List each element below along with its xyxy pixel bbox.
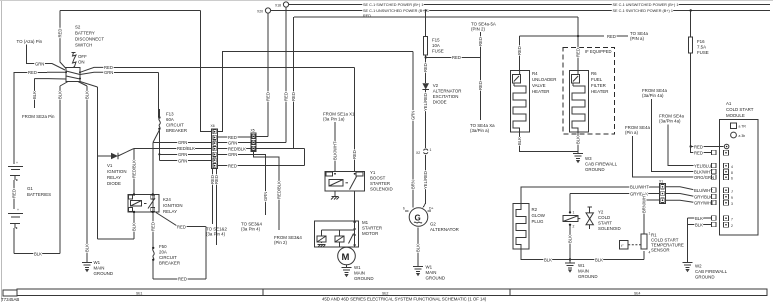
svg-text:FROM SE2a Pin: FROM SE2a Pin (22, 114, 55, 119)
svg-text:RED: RED (352, 150, 357, 159)
svg-text:CIRCUIT: CIRCUIT (166, 123, 184, 128)
svg-text:RED: RED (607, 34, 616, 39)
svg-text:IGNITION: IGNITION (163, 203, 183, 208)
svg-text:RED: RED (694, 150, 703, 155)
svg-text:60A: 60A (166, 117, 174, 122)
svg-text:(3a Pin 4): (3a Pin 4) (206, 232, 226, 237)
wire: switch bottom to main ground (78, 82, 90, 263)
label: F16 7.5A FUSE (697, 39, 709, 55)
wire: X1 pin3 to A1 GRY/WHT (666, 200, 715, 205)
label: R1 COLD START TEMPERATURE SENSOR (651, 233, 684, 253)
label: V2 ALTERNATOR EXCITATION DIODE (433, 83, 462, 105)
svg-text:A1: A1 (726, 101, 732, 106)
heater R4 unloader valve heater (510, 70, 529, 131)
svg-text:RED/BLK: RED/BLK (132, 160, 137, 178)
svg-text:RED: RED (177, 224, 186, 229)
svg-text:FUSE: FUSE (432, 49, 444, 54)
svg-text:BLK: BLK (544, 257, 552, 262)
wire: GRN feeder from X6 top right corner (218, 52, 414, 132)
svg-text:DISCONNECT: DISCONNECT (75, 37, 104, 42)
svg-text:GLOW: GLOW (532, 213, 546, 218)
label: F50 20A CIRCUIT BREAKER (159, 244, 180, 266)
svg-text:UNLOADER: UNLOADER (532, 77, 556, 82)
svg-text:S2: S2 (75, 25, 81, 30)
svg-text:BLK: BLK (416, 244, 421, 252)
ground W1 main ground (right) (565, 258, 598, 279)
battery G1 upper (8, 161, 23, 209)
svg-text:BLK: BLK (517, 137, 522, 145)
svg-text:W2: W2 (695, 264, 702, 269)
svg-text:IGNITION: IGNITION (107, 169, 127, 174)
wire: X18 drop to X5 (284, 7, 289, 142)
svg-text:F15: F15 (432, 38, 440, 43)
wire: X6 to X5 RED/BLK (218, 146, 252, 151)
svg-text:Y2: Y2 (598, 210, 604, 215)
bus label right: switched power (613, 3, 679, 7)
svg-text:GROUND: GROUND (578, 274, 598, 279)
svg-text:10A: 10A (432, 43, 440, 48)
svg-text:(3a Pin 1a): (3a Pin 1a) (323, 117, 345, 122)
wire: GRN bus 2 to X6 (158, 152, 211, 157)
solenoid coil Y2 (563, 194, 578, 260)
svg-text:(PIN a): (PIN a) (630, 36, 644, 41)
svg-text:GRN: GRN (178, 152, 187, 157)
svg-text:W1: W1 (94, 260, 101, 265)
svg-text:FILTER: FILTER (591, 83, 606, 88)
wire: BLK/WHT drop to Y1 coil (333, 122, 338, 172)
bus label left: RED (363, 14, 371, 18)
wire: switched power bus (top line) (289, 4, 770, 6)
svg-text:SE1: SE1 (136, 291, 143, 295)
svg-text:W3: W3 (585, 156, 592, 161)
svg-text:GRN: GRN (35, 61, 44, 66)
svg-text:M: M (342, 252, 350, 263)
svg-text:2: 2 (731, 224, 733, 228)
circuit breaker F50 (152, 247, 206, 282)
svg-text:MAIN: MAIN (354, 271, 365, 276)
label: S2 BATTERY DISCONNECT SWITCH (75, 25, 104, 48)
section strip SE1 SE2 SE4 (17, 289, 767, 296)
label: TO SE4a-5A (PIN 2) (471, 22, 496, 32)
svg-text:V2: V2 (433, 83, 439, 88)
svg-text:RED: RED (363, 14, 371, 18)
svg-text:DIODE: DIODE (433, 100, 447, 105)
label: G2 ALTERNATOR (430, 222, 459, 233)
svg-text:RED/BLK: RED/BLK (177, 146, 195, 151)
svg-text:HEATER: HEATER (532, 89, 549, 94)
svg-text:VALVE: VALVE (532, 83, 546, 88)
bus label left: unswitched power (363, 9, 429, 13)
svg-text:X18: X18 (275, 4, 281, 8)
label: TO SE4a (PIN a) (630, 31, 649, 41)
wire: RED from battery plus into switch (14, 70, 65, 164)
svg-text:FUEL: FUEL (591, 77, 603, 82)
svg-text:ON: ON (78, 60, 85, 65)
heater R6 fuel filter heater (570, 70, 589, 131)
wire: F16 to A1 RED pin 1 (691, 144, 724, 149)
svg-text:K24: K24 (163, 197, 171, 202)
label: FROM SE1a X1 (3a Pin 1a) (323, 112, 355, 122)
label: K24 IGNITION RELAY (163, 197, 183, 214)
svg-text:3: 3 (731, 202, 733, 206)
wire: A1 BLK pins to W2 ground (688, 216, 712, 262)
svg-text:GRY/BLK: GRY/BLK (694, 194, 712, 199)
svg-text:RED: RED (58, 29, 63, 38)
svg-text:BLU/WHT: BLU/WHT (630, 185, 649, 190)
ground W3 cab firewall ground (573, 154, 618, 173)
svg-text:YEL/BLU: YEL/BLU (694, 163, 711, 168)
wire: X1 pin3 BRN/WHT down to R1 (642, 193, 660, 234)
svg-text:RED: RED (228, 164, 237, 169)
svg-text:R4: R4 (532, 71, 538, 76)
label: TO (A2a) Pin stub top-left (17, 39, 45, 64)
wire: switch bottom to V1 diode loop (80, 82, 98, 240)
wire: RED from F15 junction to TO SE4 riser (426, 55, 481, 60)
wire: drop to A1 ORG/GRN (632, 136, 714, 180)
svg-text:CAB FIREWALL: CAB FIREWALL (695, 269, 728, 274)
module A1 cold start module (712, 119, 758, 235)
svg-text:GROUND: GROUND (585, 167, 605, 172)
svg-text:W1: W1 (354, 265, 361, 270)
label: FROM SE4a (Pin a) left (625, 125, 650, 135)
svg-text:(Pin a): (Pin a) (625, 130, 638, 135)
svg-text:BLK: BLK (595, 257, 603, 262)
svg-text:BLK/WHT: BLK/WHT (694, 169, 713, 174)
wire: R2 bottom BLK to main ground (521, 249, 570, 262)
diode V1 ignition relay diode (98, 148, 134, 159)
svg-text:BATTERIES: BATTERIES (27, 192, 51, 197)
svg-text:BRN: BRN (411, 180, 416, 189)
label: FROM SE3&4 (Pin 2) (274, 235, 302, 245)
svg-text:SE2: SE2 (382, 291, 389, 295)
wire: GRN feeder down to alternator (411, 52, 416, 208)
svg-text:RED: RED (517, 46, 522, 55)
svg-text:RED: RED (12, 189, 17, 198)
svg-text:V1: V1 (107, 163, 113, 168)
svg-text:RED/BLK: RED/BLK (228, 146, 246, 151)
svg-text:GRN: GRN (411, 111, 416, 120)
svg-text:RED: RED (423, 63, 428, 72)
svg-text:(3a/Pin a): (3a/Pin a) (470, 128, 490, 133)
wire: drop to A1 YEL/BLU (668, 125, 712, 169)
svg-text:SE4: SE4 (634, 291, 641, 295)
svg-text:45D AND 46D SERIES ELECTRICAL: 45D AND 46D SERIES ELECTRICAL SYSTEM FUN… (322, 297, 487, 302)
svg-text:COLD START: COLD START (726, 107, 754, 112)
wire: K24 to F50 RED (151, 212, 156, 248)
svg-text:SE C-1 UNSWITCHED POWER (B+) 1: SE C-1 UNSWITCHED POWER (B+) 1 (613, 3, 679, 7)
svg-text:G: G (415, 214, 421, 223)
svg-text:START: START (598, 221, 612, 226)
svg-text:(Pin 2): (Pin 2) (274, 240, 287, 245)
temperature influence box (620, 240, 641, 249)
svg-text:BLK: BLK (85, 91, 90, 99)
svg-text:X20: X20 (257, 10, 263, 14)
svg-text:IF EQUIPPED: IF EQUIPPED (585, 49, 612, 54)
svg-text:CIRCUIT: CIRCUIT (159, 255, 177, 260)
svg-text:RED: RED (266, 92, 271, 101)
ground W1 main ground (alternator) (413, 265, 445, 281)
glow plug R2 (513, 204, 529, 250)
bus label left: switched power (363, 3, 423, 7)
wire: RED feeder corner down to heater junction (577, 17, 579, 37)
svg-text:BLK: BLK (695, 216, 703, 221)
wire: unswitched power bus (second line) (60, 10, 770, 12)
wire: ground line to R1 sensor (570, 251, 644, 262)
circuit breaker F13 (158, 109, 160, 130)
svg-text:X1: X1 (659, 180, 663, 184)
label: Y2 COLD START SOLENOID (598, 210, 621, 232)
svg-text:SOLENOID: SOLENOID (370, 187, 393, 192)
battery disconnect switch S2 (65, 53, 87, 82)
svg-text:ORG/GRN: ORG/GRN (694, 175, 714, 180)
connector X2 (416, 148, 432, 155)
svg-text:G1: G1 (27, 186, 33, 191)
label: R6 FUEL FILTER HEATER (591, 71, 608, 94)
fuse F15 (423, 9, 428, 83)
wire: GRN into switch (35, 61, 65, 70)
wire: switch top feed diagonal (60, 48, 66, 69)
svg-text:EXCITATION: EXCITATION (433, 94, 459, 99)
svg-text:W1: W1 (578, 263, 585, 268)
wire: heater junction stub TO SE4a (578, 34, 628, 39)
ground W1 main ground (left) (82, 260, 113, 276)
wire: X6 bottom RED out right (218, 149, 305, 169)
battery G1 lower (8, 208, 23, 254)
wire: riser to TO SE4a-5A label (478, 32, 483, 57)
wire: switch to FROM SE2a stub (32, 79, 66, 108)
label: F15 10A FUSE (432, 38, 444, 54)
svg-text:SENSOR: SENSOR (651, 248, 670, 253)
label: Y1 BOOST STARTER SOLENOID (370, 170, 393, 192)
connector X5 (251, 129, 257, 152)
svg-text:MAIN: MAIN (578, 269, 589, 274)
svg-text:YEL/RED: YEL/RED (423, 93, 428, 111)
svg-text:RED: RED (576, 48, 581, 57)
wire: X6 bottom drop B (214, 169, 219, 246)
svg-text:RED: RED (178, 277, 187, 282)
wire: GRY/BLK from Y2 to X1 (570, 191, 660, 196)
svg-text:20A: 20A (159, 250, 167, 255)
wire: R4 bottom BLK to ground (517, 132, 578, 152)
svg-text:OFF: OFF (78, 54, 87, 59)
svg-text:BLU/WHT: BLU/WHT (694, 188, 713, 193)
svg-text:YEL/RED: YEL/RED (423, 171, 428, 189)
svg-text:SWITCH: SWITCH (75, 43, 92, 48)
label: F13 60A CIRCUIT BREAKER (166, 112, 187, 134)
svg-text:M1: M1 (362, 220, 369, 225)
svg-text:BREAKER: BREAKER (159, 261, 180, 266)
node X18 (275, 2, 289, 8)
svg-text:1: 1 (430, 148, 432, 152)
svg-text:TO (A2a) Pin: TO (A2a) Pin (17, 39, 43, 44)
wire: X2 to alternator YEL/RED (423, 155, 428, 208)
label: G1 BATTERIES (27, 186, 51, 197)
wire: F16 to A1 RED pin 2 (691, 147, 712, 156)
svg-text:GROUND: GROUND (354, 276, 374, 281)
svg-text:T7345AB: T7345AB (1, 297, 19, 302)
svg-text:(3a/Pin 4a): (3a/Pin 4a) (659, 119, 681, 124)
wire: X6 bottom drop A (210, 169, 215, 225)
svg-text:BLK: BLK (85, 244, 90, 252)
svg-text:a 3b: a 3b (739, 134, 746, 138)
svg-text:BLK: BLK (568, 235, 573, 243)
wire: V2 to X2 YEL/RED (423, 90, 428, 149)
wire: X5 right to X18 riser (256, 142, 286, 144)
svg-text:4: 4 (731, 165, 733, 169)
wire: drop to A1 BLK/WHT (652, 99, 713, 174)
svg-text:7.5A: 7.5A (697, 45, 706, 50)
relay K24 ignition relay (128, 193, 159, 213)
connector X1 (659, 180, 666, 204)
svg-text:GRN: GRN (104, 70, 113, 75)
label: FROM SE2a Pin (22, 114, 55, 119)
svg-text:2: 2 (573, 225, 575, 229)
svg-text:GRN: GRN (263, 192, 268, 201)
svg-text:BLK: BLK (34, 251, 42, 256)
fuse F16 (689, 9, 693, 147)
svg-text:SOLENOID: SOLENOID (598, 226, 621, 231)
svg-text:RED: RED (228, 135, 237, 140)
wire: V1 loop bottom to K24 coil low side (98, 212, 137, 239)
wire: heater junction to R4 (517, 36, 578, 70)
svg-text:J: J (731, 190, 733, 194)
svg-text:W1: W1 (426, 265, 433, 270)
svg-text:9: 9 (731, 196, 733, 200)
svg-text:R2: R2 (532, 207, 538, 212)
footer: schematic title (322, 297, 487, 302)
svg-text:Y1: Y1 (370, 170, 376, 175)
wire: RED starter feed drop to Y1 (352, 67, 357, 172)
node X20 (257, 8, 271, 14)
svg-text:F13: F13 (166, 112, 174, 117)
svg-text:RELAY: RELAY (107, 175, 121, 180)
label: FROM SE4a (3a/Pin 4a) mid (659, 114, 684, 124)
wire: X1 pin1 to A1 BLU/WHT (666, 187, 714, 193)
svg-text:+: + (16, 161, 18, 165)
svg-text:X2: X2 (416, 151, 420, 155)
svg-text:(PIN 2): (PIN 2) (471, 27, 485, 32)
wire: X5 right to X20 riser (256, 136, 268, 138)
svg-text:RED: RED (284, 92, 289, 101)
svg-text:RELAY: RELAY (163, 209, 177, 214)
svg-text:BREAKER: BREAKER (166, 128, 187, 133)
wire: X6 to X5 GRN (218, 140, 252, 145)
svg-text:BLK: BLK (132, 223, 137, 231)
svg-text:MOTOR: MOTOR (362, 231, 378, 236)
svg-text:SE C-1 UNSWITCHED POWER (B+) 1: SE C-1 UNSWITCHED POWER (B+) 1 (363, 9, 429, 13)
relay Y1 boost starter solenoid (325, 172, 365, 192)
valve symbol Y2 (578, 207, 593, 229)
svg-text:6: 6 (731, 177, 733, 181)
wire: G2 to ground BLK (416, 228, 421, 267)
svg-text:FUSE: FUSE (697, 50, 709, 55)
wire: RED/BLK bus from V1 junction to X6 (132, 146, 212, 194)
svg-text:RED: RED (214, 175, 219, 184)
svg-text:BOOST: BOOST (370, 176, 386, 181)
wire: switch RED output to starter feed (80, 65, 355, 72)
wire: Y1 contact out to starter motor (353, 191, 355, 223)
wire: X5 right to RED riser and x304 (256, 148, 305, 150)
dashed box IF EQUIPPED (563, 48, 614, 135)
svg-text:RED: RED (151, 222, 156, 231)
wire: X6 GRN out to TO SE3&4 drop (218, 152, 269, 215)
bus label right: unswitched power (613, 9, 673, 13)
label: TO SE4a Xa (3a/Pin a) (470, 123, 495, 133)
label: TO SE1&2 (3a Pin 4) (206, 227, 227, 237)
svg-text:MAIN: MAIN (94, 266, 105, 271)
svg-text:7: 7 (731, 218, 733, 222)
svg-text:DIODE: DIODE (107, 181, 121, 186)
svg-text:RED: RED (452, 55, 461, 60)
svg-text:BLK: BLK (58, 91, 63, 99)
diode V2 alternator excitation diode (422, 83, 429, 89)
svg-text:RED: RED (478, 37, 483, 46)
svg-text:1: 1 (573, 211, 575, 215)
label: M1 STARTER MOTOR (362, 220, 382, 236)
svg-text:GROUND: GROUND (94, 271, 114, 276)
wire: X5 bottom drop FROM SE3&4 (254, 152, 282, 231)
wire: X20 drop to X5 (266, 13, 271, 136)
wire: RED into R6 (576, 36, 581, 70)
svg-text:BLK/WHT: BLK/WHT (333, 141, 338, 160)
svg-text:GROUND: GROUND (426, 276, 446, 281)
svg-text:BLK: BLK (695, 222, 703, 227)
svg-text:BRN/WHT: BRN/WHT (642, 193, 647, 213)
svg-text:GROUND: GROUND (695, 275, 715, 280)
connector X6 (211, 124, 218, 169)
svg-text:G2: G2 (430, 222, 436, 227)
svg-text:STARTER: STARTER (370, 181, 390, 186)
svg-text:COLD: COLD (598, 215, 610, 220)
footer: drawing number (1, 297, 19, 302)
svg-text:MAIN: MAIN (426, 270, 437, 275)
svg-text:b: b (403, 207, 405, 211)
wire: riser down to TO SE4a Xa label (478, 57, 483, 120)
svg-text:SE C-1 SWITCHED POWER (B+) 1: SE C-1 SWITCHED POWER (B+) 1 (363, 3, 423, 7)
ground W2 cab firewall ground (683, 263, 728, 280)
svg-text:CAB FIREWALL: CAB FIREWALL (585, 162, 618, 167)
svg-text:RED: RED (694, 144, 703, 149)
svg-text:HEATER: HEATER (591, 89, 608, 94)
label: R4 UNLOADER VALVE HEATER (532, 71, 556, 94)
label: A1 COLD START MODULE (726, 101, 754, 118)
wire: RED feeder from bus corner x294 (294, 16, 578, 18)
svg-text:R6: R6 (591, 71, 597, 76)
wire: switch GRN output to F13 (80, 70, 159, 117)
svg-text:RED: RED (291, 92, 296, 101)
motor M1 starter motor box (314, 221, 358, 247)
svg-text:GRN: GRN (178, 140, 187, 145)
wire: F13 out fan to GRN bus and F50 drop (153, 130, 212, 248)
svg-text:(3a Pin 4): (3a Pin 4) (241, 227, 261, 232)
svg-text:MODULE: MODULE (726, 113, 745, 118)
section strip left cap (3, 290, 17, 296)
svg-text:+: + (17, 208, 19, 212)
svg-text:RED: RED (28, 70, 37, 75)
chassis ground under Y1 coil (331, 191, 339, 200)
svg-text:RED: RED (478, 81, 483, 90)
wire: RED line drop x293.5 to X5 (291, 17, 296, 149)
motor M symbol (338, 247, 356, 265)
svg-text:SE C-1 SWITCHED POWER (B+) 1: SE C-1 SWITCHED POWER (B+) 1 (613, 9, 673, 13)
svg-text:(3a/Pin 4a): (3a/Pin 4a) (642, 93, 664, 98)
svg-text:8: 8 (731, 171, 733, 175)
svg-text:BATTERY: BATTERY (75, 31, 95, 36)
svg-text:F50: F50 (159, 244, 167, 249)
wire: X6 to X5 RED (218, 135, 252, 140)
wire: R2 top BLU/WHT to X1 (521, 185, 660, 204)
label: V1 IGNITION RELAY DIODE (107, 163, 127, 186)
